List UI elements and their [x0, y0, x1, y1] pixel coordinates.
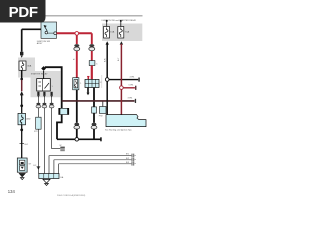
svg-text:W: W — [60, 145, 62, 147]
svg-text:15A: 15A — [110, 31, 114, 34]
svg-text:7.5A: 7.5A — [125, 31, 130, 34]
svg-text:ASSY: ASSY — [37, 42, 43, 45]
svg-text:Sxx Starting and Ignition Sys: Sxx Starting and Ignition Sys — [105, 129, 132, 132]
svg-text:STARTER RELAY: STARTER RELAY — [31, 73, 48, 76]
svg-text:P/W: P/W — [99, 115, 103, 117]
svg-text:3 IH1: 3 IH1 — [128, 98, 134, 100]
svg-text:5 IH1: 5 IH1 — [129, 84, 135, 86]
svg-text:B-R: B-R — [105, 58, 107, 62]
svg-text:4 IH1: 4 IH1 — [130, 76, 136, 78]
svg-text:PDF: PDF — [9, 4, 38, 21]
svg-text:134: 134 — [8, 189, 16, 194]
svg-text:30A: 30A — [27, 64, 31, 67]
svg-text:2004 COROLLA (EWD533U): 2004 COROLLA (EWD533U) — [57, 194, 85, 197]
